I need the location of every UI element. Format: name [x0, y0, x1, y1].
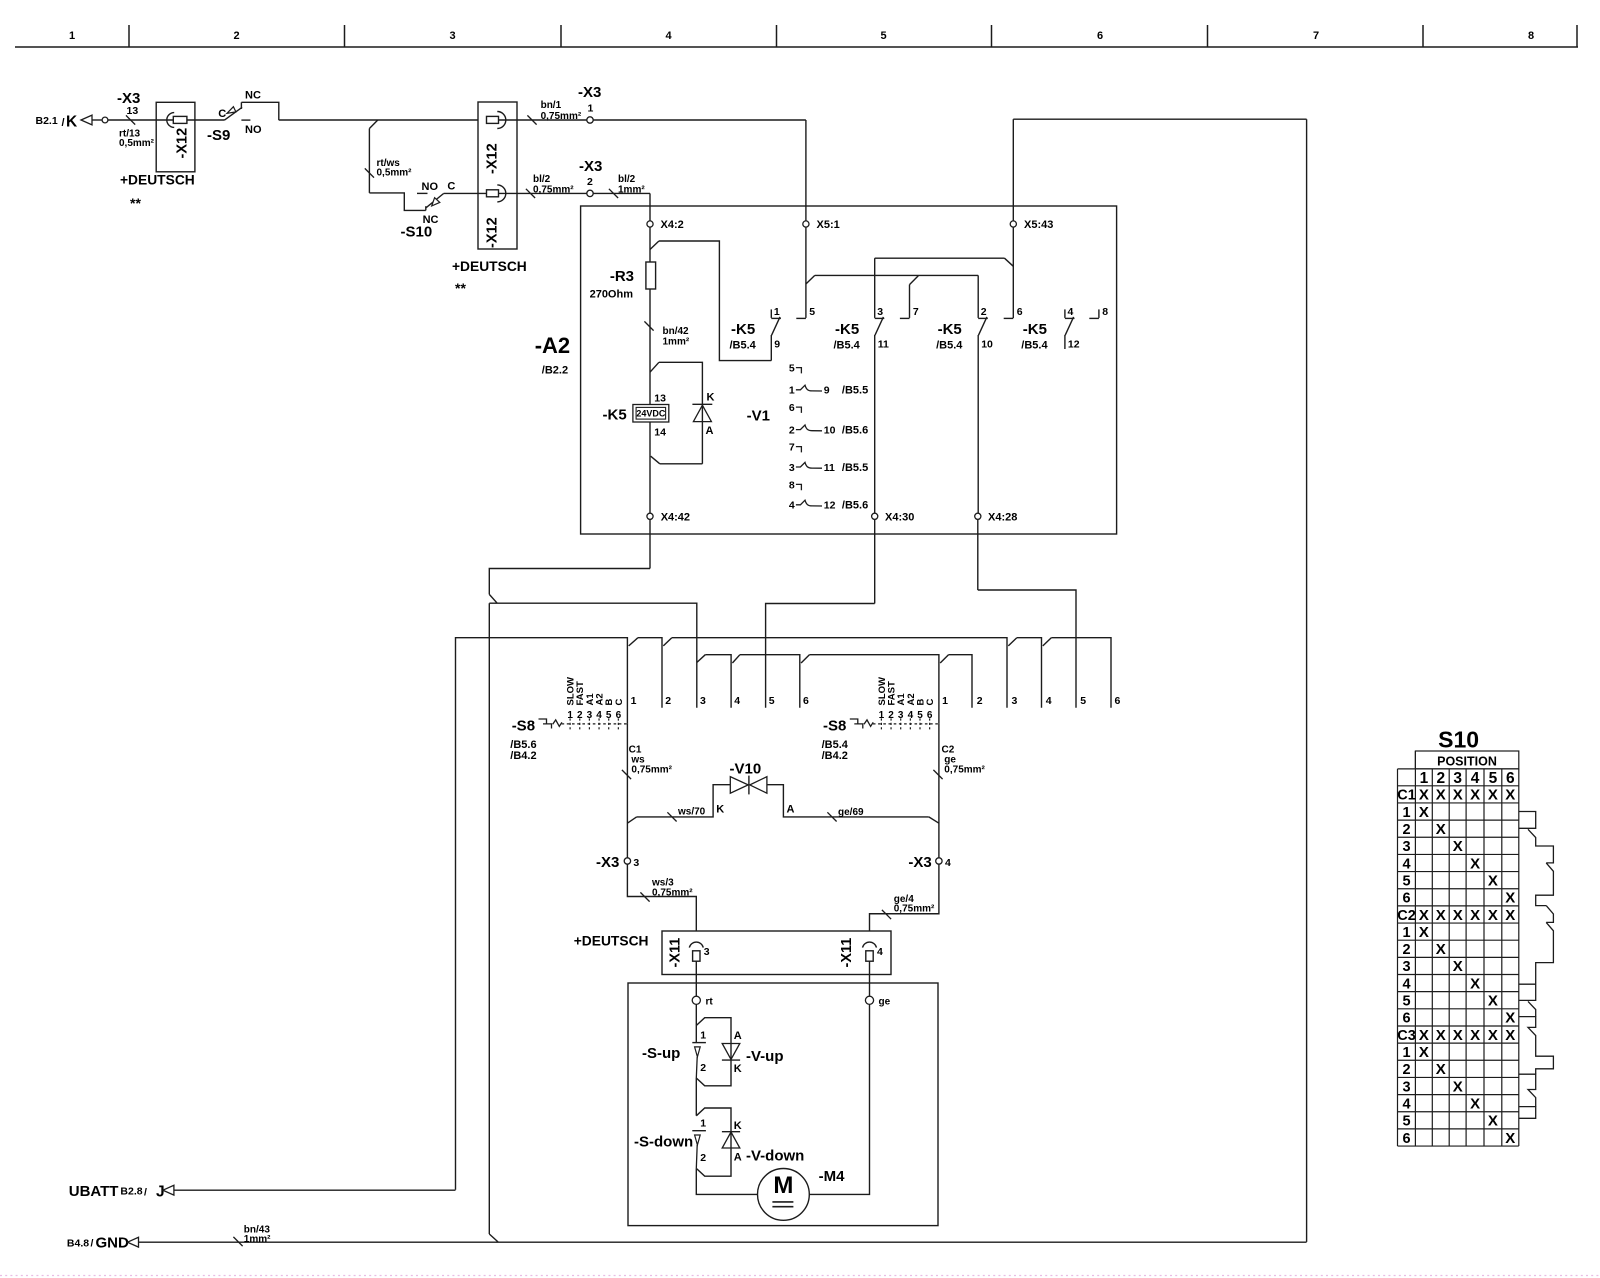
- wire X3:3 to X11:3 with label ws/3: [627, 864, 696, 931]
- svg-text:-K5: -K5: [1023, 321, 1047, 338]
- junction S8L pin4 (45 deg): [732, 655, 740, 663]
- svg-text:-X3: -X3: [596, 854, 619, 871]
- svg-text:-X11: -X11: [668, 938, 684, 968]
- terminal X4:30: [872, 513, 878, 519]
- svg-text:X: X: [1419, 804, 1429, 821]
- svg-text:/B5.6: /B5.6: [842, 500, 868, 512]
- svg-text:3: 3: [449, 30, 455, 42]
- svg-text:/B5.5: /B5.5: [842, 462, 868, 474]
- svg-text:0,75mm²: 0,75mm²: [533, 185, 574, 196]
- X11 pin 4: [863, 942, 877, 948]
- svg-text:0,75mm²: 0,75mm²: [541, 111, 582, 122]
- svg-text:-K5: -K5: [938, 321, 962, 338]
- terminal -X3:13: [102, 117, 108, 123]
- svg-text:5: 5: [606, 710, 612, 721]
- wire rail H_d X5:43 to contact pin 3: [875, 257, 1005, 259]
- svg-text:X: X: [1505, 890, 1515, 907]
- svg-text:1: 1: [774, 306, 780, 318]
- svg-text:-K5: -K5: [603, 407, 627, 424]
- svg-text:X: X: [1505, 907, 1515, 924]
- svg-text:6: 6: [789, 402, 795, 414]
- label ws/70: [667, 812, 676, 821]
- svg-text:0,75mm²: 0,75mm²: [894, 904, 935, 915]
- svg-text:-A2: -A2: [535, 333, 570, 358]
- wire rail H_c to contact pin 2: [815, 274, 978, 276]
- svg-text:5: 5: [789, 363, 795, 375]
- svg-text:C: C: [218, 108, 226, 120]
- svg-text:NO: NO: [245, 124, 262, 136]
- wire W_b S8L pin3 branch to pin4: [697, 655, 706, 663]
- svg-text:J: J: [156, 1184, 165, 1201]
- branch X5:1 to H_c rail (45 deg): [806, 275, 815, 284]
- svg-text:3: 3: [898, 710, 904, 721]
- svg-text:-X12: -X12: [175, 128, 191, 159]
- svg-text:X: X: [1505, 787, 1515, 804]
- svg-text:6: 6: [1017, 306, 1023, 318]
- svg-text:-X12: -X12: [485, 143, 501, 174]
- svg-text:3: 3: [633, 857, 639, 869]
- S-down contact pins 1/2: [692, 1130, 706, 1132]
- wire W_b to S8R pin2: [949, 655, 973, 708]
- terminal X5:43: [1010, 221, 1016, 227]
- svg-text:/: /: [62, 117, 65, 129]
- svg-text:+DEUTSCH: +DEUTSCH: [574, 934, 649, 949]
- svg-text:bl/2: bl/2: [618, 174, 636, 185]
- svg-text:+DEUTSCH: +DEUTSCH: [120, 173, 195, 188]
- wire coil to X4:42: [649, 422, 651, 513]
- label bl/2 0,75mm2: [526, 189, 535, 198]
- svg-text:1: 1: [1402, 925, 1410, 941]
- svg-text:X: X: [1419, 787, 1429, 804]
- switch -S-up frame: [696, 1018, 731, 1086]
- svg-text:-X3: -X3: [578, 84, 601, 101]
- svg-text:C2: C2: [1397, 908, 1416, 924]
- svg-text:1mm²: 1mm²: [244, 1234, 271, 1245]
- motor unit box: [628, 983, 938, 1226]
- svg-text:7: 7: [789, 442, 795, 454]
- svg-text:X4:42: X4:42: [661, 512, 690, 524]
- svg-text:8: 8: [1528, 30, 1534, 42]
- wire W_b pin4 to pin6: [740, 655, 800, 708]
- wire jog to S10 NC: [369, 193, 425, 211]
- resistor -R3 270Ohm: [646, 262, 656, 289]
- svg-text:/B5.4: /B5.4: [1021, 340, 1048, 352]
- svg-text:K: K: [734, 1063, 742, 1075]
- ruler ticks: [128, 25, 130, 47]
- svg-text:5: 5: [880, 30, 886, 42]
- svg-text:13: 13: [127, 105, 139, 117]
- svg-text:7: 7: [913, 306, 919, 318]
- svg-text:3: 3: [1453, 770, 1462, 787]
- svg-text:/B5.4: /B5.4: [834, 340, 861, 352]
- svg-text:1: 1: [567, 710, 573, 721]
- switch -S10 (NO/C/NC): [425, 206, 427, 210]
- svg-text:5: 5: [1402, 873, 1410, 889]
- svg-text:8: 8: [1102, 306, 1108, 318]
- svg-text:2: 2: [1402, 822, 1410, 838]
- svg-text:10: 10: [981, 339, 993, 351]
- junction S8L pin2 (45 deg): [663, 638, 672, 646]
- svg-text:X: X: [1436, 1061, 1446, 1078]
- label bn/1 0,75mm2: [527, 115, 536, 124]
- svg-text:2: 2: [577, 710, 583, 721]
- svg-text:C: C: [614, 699, 625, 706]
- wire X3:4 to X11:4 with label ge/4: [870, 864, 939, 931]
- terminal X4:2: [647, 221, 653, 227]
- wire X4:28 through A2 bottom: [977, 519, 979, 590]
- wire down to X5:43: [1012, 119, 1014, 221]
- svg-text:X: X: [1419, 907, 1429, 924]
- svg-text:-S-down: -S-down: [634, 1133, 693, 1150]
- svg-text:14: 14: [654, 427, 666, 439]
- wire S-down to motor: [696, 1168, 757, 1194]
- wire X3:2 to A2 X4:2 with label bl/2 1mm2: [593, 192, 650, 194]
- wire down to S10 with label rt/ws 0,5mm2: [368, 129, 370, 193]
- connector -X12 (second, +DEUTSCH) box: [478, 102, 517, 249]
- svg-text:4: 4: [1046, 695, 1052, 707]
- svg-text:6: 6: [1402, 891, 1410, 907]
- svg-text:-K5: -K5: [731, 321, 755, 338]
- relay contact -K5 pin 3/11: [874, 258, 876, 318]
- svg-text:-M4: -M4: [819, 1168, 845, 1185]
- svg-text:3: 3: [1402, 1079, 1410, 1095]
- svg-text:/: /: [144, 1186, 147, 1198]
- wire X4:2 down to R3: [649, 227, 651, 262]
- wire H_mid to S8L pin3: [489, 603, 697, 708]
- svg-text:2: 2: [587, 176, 593, 188]
- branch X4:2 to contact K5-1 (45 deg corner): [650, 241, 659, 250]
- svg-text:13: 13: [654, 393, 666, 405]
- svg-text:3: 3: [1012, 695, 1018, 707]
- wire V10 K-side to C1: [627, 817, 636, 823]
- svg-text:X: X: [1488, 787, 1498, 804]
- svg-text:/B5.4: /B5.4: [730, 340, 757, 352]
- wire C2 from S8R pin1 to X3:4 with labels: [938, 724, 940, 858]
- terminal rt: [692, 996, 700, 1004]
- svg-text:-X12: -X12: [485, 217, 501, 248]
- relay contact NO pin 8: [1098, 309, 1100, 318]
- svg-text:X: X: [1470, 975, 1480, 992]
- svg-text:X: X: [1505, 1027, 1515, 1044]
- svg-text:+DEUTSCH: +DEUTSCH: [452, 259, 527, 274]
- switch -S9 (C/NC/NO): [225, 107, 243, 120]
- svg-text:X: X: [1470, 1095, 1480, 1112]
- svg-text:rt: rt: [706, 997, 714, 1008]
- X12-2 lower pin: [487, 190, 499, 197]
- terminal X4:42: [647, 513, 653, 519]
- svg-text:bn/42: bn/42: [663, 326, 690, 337]
- svg-text:/B2.2: /B2.2: [542, 364, 568, 376]
- svg-text:-S9: -S9: [207, 127, 230, 144]
- wire motor to ge: [809, 1004, 869, 1194]
- wire through X12-1: [156, 119, 173, 121]
- svg-text:24VDC: 24VDC: [636, 409, 666, 419]
- svg-text:X: X: [1419, 1027, 1429, 1044]
- relay contact NO pin 6: [1012, 316, 1014, 319]
- svg-text:/B5.6: /B5.6: [842, 424, 868, 436]
- svg-text:12: 12: [824, 500, 836, 512]
- wire UBATT rail W_a: [456, 638, 628, 1190]
- wire W_a pin1 to pin2: [638, 638, 662, 708]
- svg-text:-X11: -X11: [839, 938, 855, 968]
- svg-text:A: A: [787, 804, 795, 816]
- svg-text:11: 11: [824, 462, 835, 474]
- wire X5:43 to GND riser top segment: [1013, 118, 1306, 120]
- S-up contact pins 1/2: [692, 1042, 706, 1044]
- junction to S10 branch (45 deg corner): [369, 120, 377, 129]
- svg-text:2: 2: [981, 306, 987, 318]
- junction S8L pin6 (45 deg): [801, 655, 809, 663]
- junction S8R pin4 (45 deg): [1043, 638, 1052, 646]
- svg-text:4: 4: [596, 710, 602, 721]
- svg-text:X: X: [1453, 907, 1463, 924]
- svg-text:-X3: -X3: [908, 854, 931, 871]
- svg-text:B4.8: B4.8: [67, 1237, 89, 1249]
- wire X11:4 to ge terminal: [869, 961, 871, 996]
- svg-text:-V1: -V1: [747, 408, 770, 425]
- svg-text:0,75mm²: 0,75mm²: [944, 764, 985, 775]
- svg-text:A: A: [734, 1152, 742, 1164]
- wire B2.1 arrow to X3:13: [92, 119, 102, 121]
- svg-text:4: 4: [665, 30, 672, 42]
- svg-text:A: A: [706, 425, 714, 437]
- svg-text:2: 2: [789, 424, 795, 436]
- svg-text:4: 4: [1402, 976, 1410, 992]
- svg-text:K: K: [734, 1120, 742, 1132]
- svg-text:6: 6: [1506, 770, 1515, 787]
- svg-text:4: 4: [1471, 770, 1480, 787]
- terminal X5:1: [803, 221, 809, 227]
- wire X11:3 to rt terminal: [695, 961, 697, 996]
- svg-text:/B5.5: /B5.5: [842, 385, 868, 397]
- svg-text:1: 1: [631, 695, 637, 707]
- svg-text:X: X: [1470, 787, 1480, 804]
- wire GND rail with label bn/43 1mm2: [139, 1241, 1307, 1243]
- svg-text:3: 3: [877, 306, 883, 318]
- svg-text:0,5mm²: 0,5mm²: [377, 168, 413, 179]
- svg-text:5: 5: [809, 306, 815, 318]
- svg-text:X: X: [1453, 1027, 1463, 1044]
- wire S9 to junction and X12-2: [279, 119, 478, 121]
- wire X3:1 to X5:1 riser: [593, 119, 806, 121]
- svg-text:X4:2: X4:2: [661, 219, 684, 231]
- svg-text:X: X: [1436, 821, 1446, 838]
- X12-2 upper pin: [487, 116, 499, 123]
- module -A2 box: [581, 206, 1117, 534]
- svg-text:1: 1: [700, 1118, 706, 1130]
- svg-text:9: 9: [824, 385, 830, 397]
- svg-text:X: X: [1436, 941, 1446, 958]
- svg-text:A: A: [734, 1030, 742, 1042]
- svg-text:1: 1: [588, 103, 594, 115]
- motor -M4 symbol: [758, 1169, 810, 1221]
- svg-text:X: X: [1488, 907, 1498, 924]
- svg-text:POSITION: POSITION: [1437, 755, 1497, 769]
- svg-text:M: M: [773, 1172, 793, 1199]
- svg-text:6: 6: [803, 695, 809, 707]
- relay contact -K5 pin 2/10: [977, 275, 979, 318]
- junction S8L pin1 (45 deg): [629, 638, 638, 646]
- switch -S-down frame: [696, 1108, 731, 1176]
- junction S8R pin3 (45 deg): [1008, 638, 1017, 646]
- svg-text:270Ohm: 270Ohm: [590, 289, 634, 301]
- svg-text:/B5.4: /B5.4: [936, 340, 963, 352]
- svg-text:1mm²: 1mm²: [618, 185, 645, 196]
- svg-text:UBATT: UBATT: [69, 1183, 119, 1200]
- X11 pin 3: [689, 942, 703, 948]
- svg-text:4: 4: [734, 695, 740, 707]
- svg-text:-S-up: -S-up: [642, 1045, 680, 1062]
- svg-text:NO: NO: [422, 181, 439, 193]
- svg-text:NC: NC: [245, 89, 261, 101]
- junction pin7 to H_c (45 deg): [910, 276, 919, 285]
- svg-text:**: **: [455, 280, 466, 296]
- svg-text:2: 2: [1436, 770, 1445, 787]
- wire W_a to S8R pin6: [1051, 638, 1111, 708]
- svg-text:X: X: [1419, 1044, 1429, 1061]
- svg-text:1: 1: [789, 385, 795, 397]
- suppressor -V10 symbol: [730, 777, 748, 794]
- svg-text:B2.8: B2.8: [120, 1185, 142, 1197]
- wire W_b pin6 to S8R pin1: [809, 655, 939, 724]
- svg-text:X5:1: X5:1: [817, 219, 840, 231]
- svg-text:3: 3: [1402, 959, 1410, 975]
- svg-text:1: 1: [942, 695, 948, 707]
- svg-text:5: 5: [769, 695, 775, 707]
- svg-text:5: 5: [1080, 695, 1086, 707]
- svg-text:-V-up: -V-up: [746, 1048, 784, 1065]
- wire X4:42 net to GND rail: left jog: [489, 569, 650, 595]
- relay contact -K5 pin 1/9: [770, 309, 772, 318]
- wire W_a pin2 to S8R pin3: [672, 638, 1007, 708]
- svg-text:6: 6: [616, 710, 622, 721]
- svg-text:2: 2: [977, 695, 983, 707]
- relay contact NO pin 5: [805, 227, 807, 318]
- table POSITION header box: [1415, 751, 1518, 769]
- wire R3 to K5 coil with label bn/42 1mm2: [649, 289, 651, 405]
- svg-text:K: K: [716, 804, 724, 816]
- svg-text:bn/1: bn/1: [541, 100, 562, 111]
- svg-text:0,75mm²: 0,75mm²: [631, 764, 672, 775]
- svg-text:-R3: -R3: [610, 268, 634, 285]
- connector -X11 box (+DEUTSCH): [662, 931, 891, 975]
- svg-text:0,5mm²: 0,5mm²: [119, 138, 155, 149]
- svg-text:5: 5: [1402, 994, 1410, 1010]
- svg-text:3: 3: [789, 462, 795, 474]
- GND riser right side: [1306, 119, 1308, 1242]
- svg-text:X: X: [1488, 993, 1498, 1010]
- svg-text:X: X: [1436, 1027, 1446, 1044]
- wire through X12-2 upper: [499, 119, 591, 121]
- svg-text:X: X: [1488, 1113, 1498, 1130]
- svg-text:5: 5: [917, 710, 923, 721]
- svg-text:0,75mm²: 0,75mm²: [652, 887, 693, 898]
- wire V10 A-side to C2 with label ge/69: [767, 785, 929, 817]
- wire rt to S-up: [695, 1004, 697, 1042]
- svg-text:X: X: [1470, 855, 1480, 872]
- svg-text:1mm²: 1mm²: [663, 337, 690, 348]
- svg-text:K: K: [66, 114, 78, 131]
- svg-text:bl/2: bl/2: [533, 174, 551, 185]
- S10 cam profile: [1519, 812, 1536, 829]
- page bottom dotted line: [0, 1275, 1600, 1277]
- svg-text:2: 2: [700, 1062, 706, 1074]
- svg-text:C: C: [447, 181, 455, 193]
- svg-text:4: 4: [789, 500, 795, 512]
- svg-text:X: X: [1453, 787, 1463, 804]
- svg-text:X: X: [1453, 1078, 1463, 1095]
- svg-text:X: X: [1436, 907, 1446, 924]
- wire V-long down to GND rail: [488, 603, 490, 1234]
- svg-text:ge/69: ge/69: [838, 807, 864, 818]
- svg-text:C: C: [925, 699, 936, 706]
- wire through X12-2 lower to X3:2: [499, 192, 591, 194]
- svg-text:ws/70: ws/70: [677, 807, 706, 818]
- wire X4:28 to S8R pin5: [978, 590, 1076, 708]
- svg-text:12: 12: [1068, 339, 1080, 351]
- svg-text:X4:30: X4:30: [885, 512, 914, 524]
- svg-text:4: 4: [945, 857, 951, 869]
- svg-text:6: 6: [927, 710, 933, 721]
- svg-text:2: 2: [233, 30, 239, 42]
- suppressor diode across coil (K/A): [650, 362, 659, 372]
- connector -X12 (first, +DEUTSCH): [156, 102, 195, 172]
- wire X4:30 through A2 bottom: [874, 519, 876, 603]
- svg-text:-S8: -S8: [512, 718, 535, 735]
- svg-text:X: X: [1453, 838, 1463, 855]
- svg-text:**: **: [130, 195, 141, 211]
- svg-text:4: 4: [1402, 1096, 1410, 1112]
- svg-text:9: 9: [774, 339, 780, 351]
- svg-text:2: 2: [1402, 942, 1410, 958]
- svg-text:6: 6: [1115, 695, 1121, 707]
- svg-text:5: 5: [1402, 1114, 1410, 1130]
- svg-text:X4:28: X4:28: [988, 512, 1017, 524]
- svg-text:3: 3: [587, 710, 593, 721]
- svg-text:3: 3: [1402, 839, 1410, 855]
- wire X4:42 through A2 bottom: [649, 519, 651, 568]
- svg-text:6: 6: [1097, 30, 1103, 42]
- svg-text:1: 1: [1402, 1045, 1410, 1061]
- svg-text:1: 1: [1402, 805, 1410, 821]
- terminal ge: [865, 996, 873, 1004]
- svg-text:6: 6: [1402, 1131, 1410, 1147]
- svg-text:X: X: [1436, 787, 1446, 804]
- wire UBATT rail: [174, 1189, 456, 1191]
- ruler line: [15, 46, 1578, 48]
- svg-text:-X3: -X3: [579, 158, 602, 175]
- svg-text:11: 11: [878, 339, 889, 351]
- svg-text:8: 8: [789, 479, 795, 491]
- svg-text:C3: C3: [1397, 1028, 1416, 1044]
- svg-text:5: 5: [1489, 770, 1498, 787]
- svg-text:S10: S10: [1438, 727, 1479, 753]
- wire C1 from S8L pin1 to X3:3 with labels: [626, 724, 628, 858]
- wire S10 C to X12-2: [444, 192, 487, 194]
- relay contact NO pin 7: [909, 285, 911, 318]
- svg-text:6: 6: [1402, 1011, 1410, 1027]
- svg-text:B2.1: B2.1: [36, 115, 58, 127]
- svg-text:1: 1: [69, 30, 75, 42]
- svg-text:/B4.2: /B4.2: [822, 750, 848, 762]
- arrow to B2.1/K: [81, 115, 92, 125]
- wire X5:43 down to pin 6: [1012, 227, 1014, 318]
- svg-text:2: 2: [665, 695, 671, 707]
- svg-text:1: 1: [1420, 770, 1429, 787]
- svg-text:-K5: -K5: [835, 321, 859, 338]
- svg-text:/: /: [91, 1237, 94, 1249]
- svg-text:/B4.2: /B4.2: [510, 750, 536, 762]
